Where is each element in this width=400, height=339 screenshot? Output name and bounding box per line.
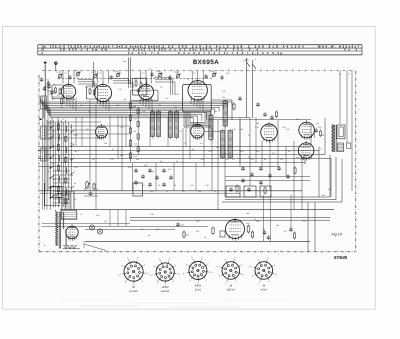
svg-text:EL41: EL41 [195, 289, 202, 292]
svg-text:a: a [264, 133, 265, 135]
svg-text:4,7k: 4,7k [208, 150, 211, 153]
svg-text:C9: C9 [91, 71, 93, 74]
svg-text:C14: C14 [123, 60, 126, 63]
svg-text:47: 47 [254, 218, 256, 221]
tuning indicator feed verticals [264, 195, 292, 241]
svg-text:470: 470 [142, 110, 145, 113]
IF can internals S3 [135, 79, 142, 93]
svg-text:220: 220 [74, 150, 77, 153]
svg-text:6: 6 [252, 275, 253, 278]
svg-text:3: 3 [177, 272, 178, 275]
valve V7 EL41 output [261, 122, 278, 143]
svg-text:4,7k: 4,7k [52, 178, 55, 181]
svg-text:4: 4 [173, 280, 174, 283]
svg-text:40: 40 [174, 184, 176, 187]
pilot lamp P2 [97, 229, 102, 234]
svg-text:2: 2 [144, 264, 145, 267]
svg-text:4,7k: 4,7k [60, 106, 63, 109]
svg-text:0,01: 0,01 [48, 138, 52, 141]
svg-text:8: 8 [154, 265, 155, 268]
svg-text:0,5: 0,5 [166, 97, 169, 100]
svg-text:R2: R2 [187, 78, 189, 81]
svg-text:3k3: 3k3 [120, 154, 123, 157]
grid coupling loops V1-V2 [77, 80, 97, 91]
valve pin drop wires V4 [191, 99, 203, 111]
AF choke winding W7 [221, 131, 226, 158]
svg-text:10k: 10k [296, 156, 299, 159]
title block text row 1 [41, 45, 359, 49]
svg-text:C15: C15 [114, 70, 117, 73]
title block text row 2 [41, 48, 357, 52]
HT supply rails [38, 118, 331, 197]
svg-text:3k3: 3k3 [256, 122, 259, 125]
svg-text:0,5: 0,5 [74, 198, 77, 201]
svg-text:4: 4 [205, 278, 206, 281]
smoothing capacitor C46 [176, 223, 180, 225]
svg-text:C8: C8 [111, 76, 113, 79]
svg-text:0,25: 0,25 [286, 128, 290, 131]
svg-text:50k: 50k [198, 190, 201, 193]
svg-text:1k: 1k [158, 184, 160, 187]
svg-text:28 000 ± 4 5w 6%: 28 000 ± 4 5w 6% [60, 48, 108, 52]
tone control network [226, 186, 271, 197]
decoupling resistor column A [129, 101, 137, 162]
svg-text:2: 2 [274, 264, 275, 267]
svg-text:30: 30 [152, 170, 154, 173]
svg-text:8: 8 [122, 264, 123, 267]
svg-text:8: 8 [258, 259, 259, 262]
svg-text:50k: 50k [216, 146, 219, 149]
svg-text:EBC41: EBC41 [227, 288, 236, 291]
svg-text:0,1: 0,1 [52, 98, 55, 101]
svg-text:8: 8 [186, 264, 187, 267]
oscillator section verticals [43, 96, 75, 210]
resistor R25 [212, 228, 214, 234]
valve base diagram B1 ECH42 [118, 256, 148, 293]
svg-text:2 200 6x8 44: 2 200 6x8 44 [248, 45, 288, 49]
svg-text:40: 40 [192, 148, 194, 151]
svg-text:k: k [179, 273, 180, 276]
svg-text:220: 220 [140, 228, 143, 231]
svg-text:2k2: 2k2 [136, 158, 139, 161]
header drop wire pair [94, 58, 131, 87]
title block text row 3 [41, 51, 282, 55]
svg-text:40: 40 [52, 162, 54, 165]
svg-text:R10: R10 [134, 155, 137, 158]
svg-text:0,02: 0,02 [272, 152, 276, 155]
svg-text:C8: C8 [77, 76, 79, 79]
svg-text:BX695A: BX695A [193, 59, 219, 66]
IF can internals S1 [52, 86, 64, 97]
svg-text:2k2: 2k2 [296, 118, 299, 121]
svg-text:a: a [69, 233, 70, 235]
inter-band horizontal ties [47, 122, 130, 138]
svg-text:47: 47 [182, 98, 184, 101]
svg-text:5: 5 [226, 281, 227, 284]
svg-text:4: 4 [235, 280, 236, 283]
svg-text:100: 100 [240, 128, 243, 131]
svg-text:8k: 8k [124, 98, 126, 101]
svg-text:C8: C8 [206, 76, 208, 79]
feedback loop wiring [130, 155, 342, 252]
svg-text:220: 220 [256, 150, 259, 153]
svg-text:10k: 10k [70, 190, 73, 193]
grid coupling loops V3-V4 [155, 78, 175, 95]
chassis rail [60, 209, 334, 211]
svg-text:6,8: 6,8 [142, 184, 145, 187]
svg-text:a: a [230, 230, 231, 232]
svg-text:4: 4 [141, 280, 142, 283]
chassis boundary dash-dot frame [39, 71, 356, 252]
svg-text:0,25: 0,25 [128, 166, 132, 169]
earth rail [40, 190, 302, 192]
svg-text:220: 220 [116, 104, 119, 107]
svg-text:25: 25 [232, 158, 234, 161]
valve base diagram B2 EAF42 [150, 257, 179, 293]
screen grid feed verticals [52, 117, 256, 191]
svg-text:2: 2 [241, 264, 242, 267]
svg-text:0,02: 0,02 [74, 166, 78, 169]
dial lamp feed wires [42, 210, 208, 251]
svg-text:10k: 10k [276, 224, 279, 227]
svg-text:k: k [159, 257, 160, 260]
svg-text:0,1: 0,1 [182, 190, 185, 193]
svg-text:8k: 8k [148, 234, 150, 237]
svg-text:8k: 8k [70, 158, 72, 161]
svg-text:C8: C8 [154, 76, 156, 79]
svg-text:0,02: 0,02 [156, 228, 160, 231]
svg-text:75: 75 [184, 142, 186, 145]
svg-text:k: k [127, 257, 128, 260]
svg-text:a: a [98, 94, 99, 96]
svg-text:0,05: 0,05 [96, 98, 100, 101]
svg-text:k: k [276, 274, 277, 277]
svg-text:C34: C34 [226, 72, 229, 75]
svg-text:100: 100 [174, 106, 177, 109]
svg-text:15k: 15k [222, 96, 225, 99]
svg-text:5k: 5k [288, 150, 290, 153]
svg-text:5k: 5k [204, 236, 206, 239]
svg-text:2k2: 2k2 [214, 110, 217, 113]
component value labels [48, 86, 323, 223]
svg-text:g: g [250, 265, 251, 268]
valve V4 EAF42 detector [188, 79, 207, 103]
tuning gang dashed link [58, 78, 212, 80]
bus return wires [209, 117, 311, 119]
pilot lamp P1 [89, 225, 94, 230]
svg-text:6: 6 [219, 275, 220, 278]
electrolytic C48 [220, 231, 225, 237]
title block frame [38, 45, 362, 55]
svg-text:7: 7 [185, 272, 186, 275]
svg-text:50k: 50k [48, 186, 51, 189]
svg-text:25: 25 [214, 190, 216, 193]
svg-text:47: 47 [248, 134, 250, 137]
V6 anode wire [204, 130, 220, 132]
heater rail [85, 240, 310, 242]
svg-text:5: 5 [259, 281, 260, 284]
svg-text:k: k [211, 271, 212, 274]
valve base diagram B5 AZ41 [250, 256, 278, 292]
svg-text:C31: C31 [210, 70, 213, 73]
valve V6 EBC41 [191, 123, 204, 141]
valve base diagram B4 EBC41 [217, 256, 245, 292]
svg-text:9: 9 [160, 259, 161, 262]
wave change switch [50, 120, 55, 210]
svg-text:470: 470 [70, 174, 73, 177]
svg-text:a: a [192, 91, 193, 93]
svg-text:6: 6 [190, 279, 191, 282]
IF can box S1 [52, 85, 64, 99]
svg-text:5k: 5k [74, 182, 76, 185]
svg-text:6: 6 [157, 280, 158, 283]
detector coil winding W6 [223, 101, 228, 126]
earth rail 2 [40, 192, 240, 194]
mains switch box [44, 183, 62, 206]
svg-text:a: a [142, 93, 143, 95]
valve V2 ECH42 [94, 82, 111, 103]
svg-text:C1: C1 [47, 78, 49, 81]
faint print-through (decorative) [60, 300, 290, 307]
svg-text:470: 470 [280, 158, 283, 161]
svg-text:a: a [194, 132, 195, 134]
valve V1 ECH42 mixer [61, 82, 75, 101]
svg-text:0,1: 0,1 [99, 72, 102, 75]
svg-text:1k: 1k [52, 146, 54, 149]
svg-text:0,1: 0,1 [194, 72, 197, 75]
svg-text:R9: R9 [134, 130, 136, 133]
svg-text:Fig 10: Fig 10 [332, 233, 343, 237]
svg-text:C19: C19 [134, 143, 137, 146]
switch wafer second [71, 124, 75, 191]
oscillator coil chain [57, 120, 59, 207]
valve base diagram B3 EL41 [183, 256, 212, 292]
svg-text:k: k [243, 274, 244, 277]
AF coupling cluster [133, 168, 173, 196]
trimmer capacitors above valves [56, 68, 229, 80]
IF transformer shield box S4 [183, 85, 212, 112]
valve V10 AZ41 rectifier [66, 224, 78, 241]
svg-text:8: 8 [225, 259, 226, 262]
IF coil winding W3 [169, 112, 173, 138]
detector coil winding W5 [209, 115, 213, 140]
loudspeaker [337, 125, 351, 151]
IF can box S2 [87, 86, 98, 99]
svg-text:3: 3 [274, 273, 275, 276]
svg-text:25: 25 [88, 110, 90, 113]
svg-text:4: 4 [268, 280, 269, 283]
output transformer T2 [332, 125, 336, 153]
antenna [43, 62, 47, 96]
valve V8 EL41 [299, 120, 315, 140]
svg-text:7: 7 [219, 266, 220, 269]
padder chain [65, 120, 67, 207]
svg-text:3: 3 [209, 271, 210, 274]
mains transformer T1 [56, 191, 77, 249]
valve pin drop wires V3 [140, 99, 152, 111]
svg-text:0,5: 0,5 [284, 230, 287, 233]
svg-text:30/33: 30/33 [162, 286, 169, 289]
supply distribution verticals [45, 71, 352, 210]
svg-text:30: 30 [322, 134, 324, 137]
svg-text:R28: R28 [246, 222, 249, 225]
IF coil winding W1 [151, 112, 155, 137]
svg-text:R2: R2 [58, 78, 60, 81]
mixer input parts [45, 83, 62, 105]
grid coupling loops V2-V3 [113, 79, 133, 88]
svg-text:R1: R1 [57, 94, 59, 97]
svg-text:2: 2 [175, 264, 176, 267]
svg-text:0,01: 0,01 [150, 190, 154, 193]
tuning indicator network [246, 222, 296, 240]
svg-text:a: a [302, 151, 303, 153]
svg-text:g: g [118, 273, 119, 276]
svg-text:9: 9 [128, 258, 129, 261]
svg-text:10k: 10k [158, 104, 161, 107]
svg-text:6,8: 6,8 [160, 160, 163, 163]
svg-text:6: 6 [125, 280, 126, 283]
svg-text:2,4 x 0,4 ± 0,4 ± 4c ± 0,5 ± 0: 2,4 x 0,4 ± 0,4 ± 4c ± 0,5 ± 0,2 4 Σ 0,4… [178, 51, 282, 55]
svg-text:7: 7 [252, 266, 253, 269]
svg-text:5k: 5k [150, 98, 152, 101]
valve pin drop wires V2 [97, 101, 109, 111]
coupling parts above V7 [263, 110, 277, 120]
AF choke winding W8 [228, 131, 233, 158]
svg-text:0,05: 0,05 [240, 150, 244, 153]
svg-text:4,7k: 4,7k [148, 68, 152, 71]
svg-text:50k: 50k [72, 98, 75, 101]
main wiring bus [40, 98, 232, 125]
volume potentiometer cluster [84, 180, 98, 196]
svg-text:k: k [192, 256, 193, 259]
IF can box S3 [132, 78, 146, 95]
svg-text:3k3: 3k3 [190, 116, 193, 119]
svg-text:0,05: 0,05 [74, 134, 78, 137]
svg-text:R2: R2 [92, 78, 94, 81]
AVC network cluster [236, 166, 296, 192]
valve top cap leads [63, 58, 247, 84]
svg-text:1k: 1k [176, 160, 178, 163]
svg-text:470: 470 [196, 230, 199, 233]
svg-text:a: a [98, 132, 99, 134]
aerial coil L1 [41, 96, 47, 118]
IF transformer secondary loops [184, 100, 232, 127]
svg-text:75: 75 [166, 190, 168, 193]
earth terminal [54, 61, 58, 71]
svg-text:A: A [41, 52, 43, 55]
svg-text:8k: 8k [264, 158, 266, 161]
svg-text:g: g [150, 274, 151, 277]
band switch section [233, 58, 260, 118]
resistor R24 [183, 232, 185, 237]
svg-text:k: k [148, 272, 149, 275]
svg-text:3: 3 [241, 273, 242, 276]
svg-text:0,1: 0,1 [200, 142, 203, 145]
svg-text:AZ41: AZ41 [260, 288, 268, 291]
svg-text:C7: C7 [74, 69, 76, 72]
mains voltage selector [44, 244, 80, 249]
aerial coil L3 [41, 148, 47, 161]
oscillator strip tie wires [53, 171, 70, 203]
svg-text:C26: C26 [174, 71, 177, 74]
aerial input capacitors [40, 77, 51, 91]
valve electrode labels [58, 72, 209, 81]
svg-text:EAF42: EAF42 [161, 290, 169, 293]
svg-text:0,05: 0,05 [96, 214, 100, 217]
svg-text:0,1: 0,1 [48, 170, 51, 173]
svg-text:100: 100 [104, 142, 107, 145]
IF can internals S2 [89, 87, 96, 96]
svg-text:C17: C17 [134, 118, 137, 121]
svg-text:a: a [302, 131, 303, 133]
IF can outer box S3b [131, 90, 159, 101]
svg-text:57/648: 57/648 [334, 255, 348, 260]
svg-text:30: 30 [48, 122, 50, 125]
bus-to-rail wrap wires [212, 147, 232, 167]
valve V3 EAF42 IF amplifier [138, 82, 153, 101]
svg-text:0,02: 0,02 [132, 106, 136, 109]
svg-text:2: 2 [207, 263, 208, 266]
svg-text:7: 7 [152, 273, 153, 276]
svg-text:6,8: 6,8 [52, 130, 55, 133]
scanned page inner frame (decorative) [3, 27, 376, 310]
svg-text:7: 7 [120, 273, 121, 276]
valve V9 EZ40 [298, 141, 314, 161]
svg-text:a: a [65, 92, 66, 94]
svg-text:47: 47 [112, 148, 114, 151]
svg-text:g: g [217, 265, 218, 268]
svg-text:g: g [183, 272, 184, 275]
aerial coil L2 [41, 126, 47, 139]
IF coil winding W2 [157, 112, 161, 137]
arrow marker left [40, 118, 43, 120]
svg-text:0,25: 0,25 [328, 188, 332, 191]
svg-text:34/35: 34/35 [195, 285, 202, 288]
svg-text:0,25: 0,25 [206, 118, 210, 121]
svg-text:4,7k: 4,7k [190, 184, 193, 187]
decoupling resistor column B [137, 107, 139, 155]
IF coil winding W4 [175, 112, 179, 138]
svg-text:3k3: 3k3 [322, 194, 325, 197]
svg-text:0,1: 0,1 [65, 72, 68, 75]
coupling parts V8-T2 [314, 128, 321, 138]
svg-text:5o: 5o [348, 73, 350, 76]
svg-text:15k: 15k [144, 164, 147, 167]
svg-text:3: 3 [146, 272, 147, 275]
svg-text:C4: C4 [56, 71, 58, 74]
svg-text:75: 75 [48, 154, 50, 157]
svg-text:C3: C3 [53, 83, 55, 86]
valve V11 EM34 tuning indicator [226, 218, 245, 241]
svg-text:0,01: 0,01 [168, 168, 172, 171]
svg-text:C52: C52 [262, 228, 265, 231]
svg-text:15k: 15k [316, 122, 319, 125]
svg-text:ECH42: ECH42 [129, 290, 138, 293]
svg-text:0,1: 0,1 [142, 72, 145, 75]
svg-text:25: 25 [70, 126, 72, 129]
svg-text:0,5: 0,5 [304, 162, 307, 165]
valve V5 EBC41 AF amplifier [96, 124, 108, 140]
svg-text:9: 9 [193, 258, 194, 261]
top right corner labels [339, 73, 350, 76]
svg-text:C22: C22 [156, 70, 159, 73]
svg-text:100: 100 [246, 212, 249, 215]
scattered value labels [48, 96, 332, 239]
valve pin drop wires V1 [64, 98, 76, 111]
